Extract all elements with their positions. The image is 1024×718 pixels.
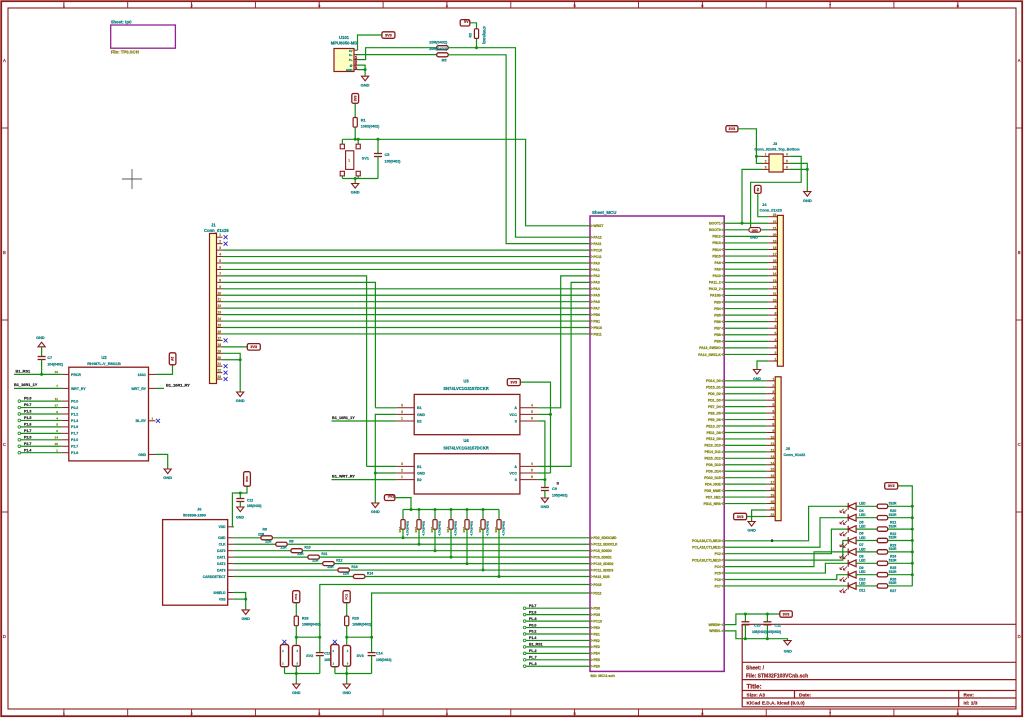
capacitor C7 [38, 356, 46, 358]
svg-text:3: 3 [775, 344, 777, 348]
svg-text:WRT_RY: WRT_RY [131, 387, 146, 391]
svg-text:PE8_D5: PE8_D5 [708, 411, 721, 415]
svg-text:13: 13 [55, 370, 59, 374]
wire U2 GND [156, 454, 168, 469]
wire J1 pin8 to U3 B1 [223, 282, 376, 407]
svg-text:17: 17 [771, 481, 775, 485]
svg-text:105(0402): 105(0402) [552, 493, 567, 497]
svg-text:PA15_SUB: PA15_SUB [593, 575, 610, 579]
crystal bottom rail [284, 667, 286, 674]
svg-text:PB10: PB10 [593, 326, 602, 330]
LED D7 wire path [724, 541, 848, 561]
svg-text:510R: 510R [889, 524, 897, 528]
svg-text:R11: R11 [321, 552, 327, 556]
wires MCU to J4 [724, 222, 768, 224]
svg-text:B1: B1 [417, 465, 422, 469]
wire pullup rail [403, 509, 499, 511]
svg-text:10MR(0402): 10MR(0402) [302, 622, 321, 626]
svg-text:SHIELD: SHIELD [213, 591, 226, 595]
wire crystal bottom rail [342, 178, 378, 180]
svg-text:PC0,A16,CT1,NE10: PC0,A16,CT1,NE10 [692, 539, 721, 543]
svg-text:U2: U2 [101, 355, 107, 360]
wire U3 A to PA2 [538, 276, 590, 408]
capacitor C13 [319, 637, 321, 652]
svg-text:Conn_01x23: Conn_01x23 [760, 209, 782, 213]
svg-text:PC1: PC1 [294, 593, 298, 599]
wire U4 B1 from J1 pin7 (joins vertical) [367, 465, 397, 467]
ic U101 MPU6050 [334, 49, 354, 72]
svg-text:PD15: PD15 [593, 583, 601, 587]
svg-text:15: 15 [771, 468, 775, 472]
svg-text:9: 9 [772, 429, 774, 433]
capacitor C14 [371, 637, 373, 652]
ground [362, 76, 369, 81]
svg-text:14: 14 [773, 272, 777, 276]
svg-text:SN74LVC1G3157DCKR: SN74LVC1G3157DCKR [443, 446, 489, 451]
svg-text:C10: C10 [754, 624, 761, 628]
resistor R23 510R [856, 540, 877, 542]
svg-text:GND: GND [361, 82, 370, 87]
svg-text:R5: R5 [442, 59, 447, 63]
resistor R26 510R [856, 574, 877, 576]
svg-text:P1.7: P1.7 [24, 429, 31, 433]
svg-text:PE5: PE5 [593, 658, 600, 662]
svg-text:1: 1 [219, 233, 221, 237]
svg-text:PB1: PB1 [593, 319, 600, 323]
LED D9 wire path [724, 563, 848, 573]
svg-text:P1.4: P1.4 [529, 636, 536, 640]
svg-text:510R: 510R [889, 536, 897, 540]
svg-text:P1.3: P1.3 [71, 419, 78, 423]
svg-text:SV1: SV1 [362, 156, 369, 160]
svg-text:B1_RS1: B1_RS1 [16, 368, 32, 373]
wire U3 S to C9 rail [538, 421, 545, 488]
svg-text:GND: GND [784, 649, 792, 653]
svg-text:470R(0402): 470R(0402) [482, 26, 486, 44]
J1 no-connects [224, 235, 228, 239]
svg-text:3V3: 3V3 [783, 612, 790, 616]
WREN+ wire [724, 614, 780, 625]
wire [357, 176, 359, 179]
svg-text:U101: U101 [339, 35, 350, 40]
svg-text:GND: GND [36, 336, 45, 340]
svg-text:PE10_D7: PE10_D7 [706, 424, 721, 428]
ground [372, 503, 379, 508]
MCU sheet right pins [722, 222, 725, 225]
resistor R9 22R [234, 543, 276, 545]
svg-text:PB15: PB15 [712, 254, 721, 258]
resistor R27 510R [856, 585, 877, 587]
svg-text:R10: R10 [304, 546, 310, 550]
svg-text:D: D [3, 634, 6, 639]
svg-text:SN74LVC1G3157DCKR: SN74LVC1G3157DCKR [443, 386, 489, 391]
svg-text:3: 3 [401, 403, 403, 407]
svg-text:WREN+: WREN+ [708, 623, 720, 627]
svg-text:SV2: SV2 [306, 654, 313, 658]
svg-text:P0.2: P0.2 [71, 406, 78, 410]
resistor R20 510R [856, 505, 877, 507]
svg-text:PD2_SDIOCMD: PD2_SDIOCMD [593, 536, 617, 540]
svg-text:WRST: WRST [593, 224, 604, 228]
power label A5 [169, 353, 176, 365]
svg-text:9: 9 [219, 285, 221, 289]
svg-text:P2.7: P2.7 [24, 442, 31, 446]
connector J5 Conn_01x22 [775, 377, 781, 521]
svg-text:R3: R3 [469, 33, 473, 37]
ic U2 [69, 367, 149, 461]
svg-text:PB13: PB13 [712, 241, 721, 245]
svg-text:22R: 22R [312, 559, 319, 563]
led D10 [848, 571, 856, 578]
svg-text:P0.9: P0.9 [24, 397, 31, 401]
svg-text:2: 2 [219, 240, 221, 244]
svg-text:4: 4 [531, 403, 533, 407]
svg-text:GND: GND [803, 198, 812, 203]
svg-text:PE12_D9: PE12_D9 [706, 437, 721, 441]
svg-text:PD0_D2: PD0_D2 [708, 392, 721, 396]
svg-text:P1.4: P1.4 [24, 448, 31, 452]
wire J1 pin18 to 3V3 [223, 346, 248, 348]
svg-text:8: 8 [775, 312, 777, 316]
svg-text:7: 7 [56, 384, 58, 388]
svg-text:C13: C13 [324, 651, 331, 655]
svg-text:19: 19 [773, 239, 777, 243]
svg-text:PRCR: PRCR [71, 373, 81, 377]
capacitor C9 [541, 487, 549, 489]
hierarchical sheet MCU [590, 216, 724, 671]
wire R5 to PA11 [448, 55, 590, 244]
svg-text:PA10B: PA10B [710, 294, 721, 298]
svg-text:20: 20 [771, 500, 775, 504]
svg-text:J3: J3 [773, 141, 778, 146]
svg-text:B1_16R1_1Y: B1_16R1_1Y [332, 416, 355, 420]
svg-text:LED: LED [859, 559, 866, 563]
svg-text:12: 12 [217, 304, 221, 308]
svg-text:6: 6 [775, 325, 777, 329]
svg-text:PA4: PA4 [593, 287, 599, 291]
power label 3V3 [885, 483, 898, 490]
svg-text:C5: C5 [385, 153, 390, 157]
svg-text:105(0402): 105(0402) [385, 160, 401, 164]
svg-text:6: 6 [786, 165, 788, 169]
svg-text:P1.6: P1.6 [24, 423, 31, 427]
wire U4 VCC [538, 472, 551, 474]
wire U2 out B1_16R1_RY [156, 387, 165, 389]
svg-text:PD4_NOE: PD4_NOE [705, 482, 722, 486]
resistor R20 4.7K pull-up [498, 510, 500, 520]
U2 left input wires [18, 400, 21, 403]
svg-text:PL.3: PL.3 [529, 662, 537, 666]
svg-text:4.7K(0402): 4.7K(0402) [486, 521, 490, 535]
svg-text:P1.5: P1.5 [24, 416, 31, 420]
svg-text:10: 10 [771, 435, 775, 439]
svg-text:2: 2 [401, 410, 403, 414]
resistor R16 4.7K pull-up [434, 508, 437, 511]
svg-text:5: 5 [786, 159, 788, 163]
svg-text:Sheet: /: Sheet: / [746, 665, 765, 671]
svg-text:PE7_D4: PE7_D4 [708, 405, 721, 409]
svg-text:C: C [1018, 442, 1021, 447]
led D4 [848, 503, 856, 510]
svg-text:PC12_SDIOCLK: PC12_SDIOCLK [593, 543, 618, 547]
svg-text:PB0: PB0 [593, 313, 600, 317]
svg-text:4: 4 [772, 397, 774, 401]
svg-text:16: 16 [773, 259, 777, 263]
svg-text:C14: C14 [376, 651, 383, 655]
svg-text:@: @ [350, 64, 353, 68]
svg-text:10MR(0402): 10MR(0402) [352, 622, 371, 626]
crystal SV1 [341, 139, 343, 144]
svg-text:PA8: PA8 [714, 261, 720, 265]
capacitor C12 [239, 492, 242, 495]
svg-text:SV3: SV3 [357, 654, 364, 658]
svg-text:3V3: 3V3 [250, 345, 257, 349]
svg-text:PE3: PE3 [593, 645, 600, 649]
svg-text:P0.7: P0.7 [24, 403, 31, 407]
svg-text:VSS: VSS [219, 597, 226, 601]
wire U4 GND to chain [375, 472, 396, 474]
svg-text:PB12: PB12 [712, 235, 721, 239]
svg-text:GND: GND [417, 471, 425, 475]
svg-text:22: 22 [217, 369, 221, 373]
svg-text:PA10: PA10 [713, 274, 721, 278]
svg-text:PD12: PD12 [593, 591, 601, 595]
svg-text:R28: R28 [302, 616, 309, 620]
svg-text:1: 1 [775, 358, 777, 362]
wire crystal junction rail to MCU pin [347, 593, 590, 637]
svg-text:13: 13 [217, 311, 221, 315]
svg-text:PL.7: PL.7 [529, 656, 537, 660]
svg-text:105(0402)105(0402): 105(0402)105(0402) [752, 630, 781, 634]
led D7 [848, 537, 856, 544]
wire B1_16R1_1Y to U2 [14, 387, 62, 389]
power label PC1 [293, 591, 300, 603]
svg-text:11: 11 [218, 298, 222, 302]
svg-text:P0.2: P0.2 [529, 630, 536, 634]
svg-text:12: 12 [771, 448, 775, 452]
svg-text:PA5: PA5 [593, 294, 599, 298]
svg-text:Id: 1/3: Id: 1/3 [964, 701, 978, 707]
svg-text:PE0: PE0 [593, 626, 600, 630]
svg-text:PE9_D6: PE9_D6 [708, 418, 721, 422]
svg-text:8: 8 [219, 278, 221, 282]
svg-text:PA12: PA12 [593, 236, 601, 240]
svg-text:PA3: PA3 [593, 281, 599, 285]
svg-text:14: 14 [217, 317, 221, 321]
svg-text:PC10: PC10 [593, 248, 602, 252]
svg-text:VDD: VDD [219, 525, 227, 529]
svg-text:GND: GND [541, 505, 550, 509]
resistor R12 22R [234, 563, 323, 565]
svg-text:R20: R20 [494, 527, 498, 533]
svg-text:VCC: VCC [509, 413, 517, 417]
svg-text:10K0(0402): 10K0(0402) [361, 124, 379, 128]
svg-text:P+: P+ [349, 58, 353, 62]
svg-text:22R: 22R [343, 572, 350, 576]
svg-text:CARDDETECT: CARDDETECT [203, 575, 226, 579]
svg-text:PC8_SD0D0: PC8_SD0D0 [593, 549, 611, 553]
svg-text:PD11_NRS: PD11_NRS [703, 502, 721, 506]
svg-text:4.7K(0402): 4.7K(0402) [438, 521, 442, 535]
svg-text:GND: GND [138, 453, 146, 457]
power label 3V3 [726, 126, 738, 132]
svg-text:20: 20 [217, 356, 221, 360]
svg-text:PE11_D8: PE11_D8 [706, 431, 720, 435]
svg-text:3V3: 3V3 [737, 515, 744, 519]
svg-text:R16: R16 [430, 527, 434, 533]
power label 3V3 [247, 344, 260, 351]
power label 3V3 [734, 513, 747, 519]
svg-text:B1_WRT_RY: B1_WRT_RY [332, 474, 355, 478]
LED D11 wire path [724, 585, 848, 587]
svg-text:WREN-: WREN- [709, 629, 721, 633]
wire U3 B1 from J1 pin8 [375, 407, 396, 409]
MCU sheet left pins upper [590, 224, 593, 227]
svg-text:PA12_2: PA12_2 [709, 287, 721, 291]
ground [541, 498, 548, 503]
svg-text:PB5: PB5 [714, 313, 721, 317]
wire U101 SCL [358, 48, 437, 60]
resistor R17 4.7K pull-up [450, 508, 453, 511]
resistor R15 4.7K pull-up [418, 508, 421, 511]
inline GND power label on BOOT0 [749, 228, 761, 233]
svg-text:GND: GND [241, 617, 250, 621]
svg-text:S+: S+ [349, 53, 353, 57]
svg-text:PD8_D13: PD8_D13 [706, 463, 721, 467]
svg-text:RH487L-V_RM11B: RH487L-V_RM11B [87, 361, 121, 366]
WREN- wire [724, 631, 787, 641]
svg-text:14: 14 [771, 461, 775, 465]
svg-text:2: 2 [772, 384, 774, 388]
svg-text:P2.7: P2.7 [529, 604, 536, 608]
svg-text:4: 4 [219, 253, 221, 257]
svg-text:CLK: CLK [219, 543, 226, 547]
capacitor C11 [766, 613, 769, 616]
wire J3 pins5/6 to GND [790, 163, 808, 191]
svg-text:PA2: PA2 [593, 274, 599, 278]
svg-text:PE4: PE4 [593, 652, 600, 656]
svg-text:CMD: CMD [218, 536, 226, 540]
svg-text:A: A [514, 465, 517, 469]
wire U3 GND chain [375, 414, 396, 503]
resistor R10 22R [234, 550, 291, 552]
power label 3V3 [384, 495, 395, 501]
svg-text:PD7_NE1: PD7_NE1 [706, 495, 721, 499]
svg-text:GND: GND [292, 691, 301, 695]
svg-text:PB8: PB8 [714, 333, 721, 337]
svg-text:R27: R27 [890, 589, 896, 593]
resistor R8 22R [234, 537, 261, 539]
svg-text:U4: U4 [463, 438, 469, 443]
wire 3V3 to R1 [354, 103, 356, 117]
svg-text:GND: GND [163, 475, 172, 480]
svg-text:P2.7: P2.7 [71, 445, 78, 449]
svg-text:Size: A3: Size: A3 [747, 692, 766, 698]
svg-text:PB3: PB3 [714, 300, 721, 304]
wire U3 B2 label B1_16R1_1Y [332, 420, 397, 422]
svg-text:11: 11 [773, 292, 777, 296]
svg-text:MPU6050-MD: MPU6050-MD [331, 41, 358, 46]
svg-text:5: 5 [772, 403, 774, 407]
svg-text:B1_RS1: B1_RS1 [529, 643, 543, 647]
wire U101 VCC to 3V3 [358, 35, 382, 50]
svg-text:4: 4 [56, 416, 58, 420]
svg-text:R14: R14 [398, 527, 402, 533]
svg-text:PC10_SD0D2: PC10_SD0D2 [593, 562, 613, 566]
LED rail to 3V3 [898, 486, 913, 586]
svg-text:J5: J5 [786, 446, 791, 451]
svg-text:R29: R29 [352, 616, 359, 620]
svg-text:R13: R13 [351, 565, 357, 569]
svg-text:C12: C12 [247, 498, 253, 502]
svg-text:PC11: PC11 [593, 255, 601, 259]
svg-text:VCC: VCC [509, 471, 517, 475]
svg-text:510R: 510R [889, 581, 897, 585]
svg-text:16: 16 [771, 474, 775, 478]
wire SD shield/vss to GND [234, 593, 246, 610]
svg-text:Sheet_MCU: Sheet_MCU [592, 210, 616, 215]
ground [804, 192, 811, 197]
svg-text:3: 3 [765, 165, 767, 169]
svg-text:LED: LED [859, 502, 866, 506]
svg-text:File: TP0.SCH: File: TP0.SCH [111, 50, 139, 55]
svg-text:R12: R12 [336, 559, 342, 563]
wires MCU to J5 [724, 380, 766, 382]
svg-text:GND: GND [371, 509, 380, 514]
svg-text:GND: GND [747, 529, 756, 533]
svg-text:22R: 22R [258, 532, 265, 536]
svg-text:17: 17 [55, 403, 59, 407]
svg-text:19: 19 [217, 349, 221, 353]
svg-text:6: 6 [531, 475, 533, 479]
ground [237, 392, 244, 397]
svg-text:21: 21 [771, 507, 775, 511]
svg-text:R9: R9 [289, 539, 293, 543]
svg-text:B: B [1018, 250, 1021, 255]
resistor R5 20R [437, 53, 449, 57]
wire U101 SDA [358, 54, 437, 56]
svg-text:23: 23 [773, 213, 777, 217]
svg-text:GND: GND [750, 236, 758, 240]
wire U4 S [538, 479, 545, 481]
svg-text:PC4: PC4 [715, 565, 721, 569]
svg-text:R17: R17 [446, 527, 450, 533]
svg-text:PC3,A16,CT1,NE13: PC3,A16,CT1,NE13 [692, 558, 721, 562]
svg-text:P1.6: P1.6 [71, 425, 78, 429]
svg-text:PC5: PC5 [715, 571, 721, 575]
svg-text:5: 5 [531, 469, 533, 473]
svg-text:PE1: PE1 [593, 632, 600, 636]
svg-text:20: 20 [773, 233, 777, 237]
svg-text:P2.6: P2.6 [529, 610, 536, 614]
wire R4 to PA12 [448, 48, 590, 238]
svg-text:R19: R19 [478, 527, 482, 533]
svg-text:105(0402): 105(0402) [376, 658, 391, 662]
svg-text:PC13: PC13 [593, 619, 602, 623]
wire U2 16A1 to hier label [156, 365, 173, 375]
svg-text:PD15_D1: PD15_D1 [706, 386, 721, 390]
svg-text:3V3: 3V3 [385, 33, 392, 37]
svg-text:23: 23 [217, 375, 221, 379]
svg-text:U3: U3 [463, 379, 469, 384]
ground [343, 684, 350, 689]
svg-text:PD6: PD6 [593, 607, 600, 611]
resistor R18 4.7K pull-up [466, 508, 469, 511]
svg-text:PE14_D11: PE14_D11 [705, 450, 721, 454]
svg-text:P2.9: P2.9 [24, 435, 31, 439]
svg-text:PB6: PB6 [714, 320, 721, 324]
svg-text:A: A [3, 58, 6, 63]
